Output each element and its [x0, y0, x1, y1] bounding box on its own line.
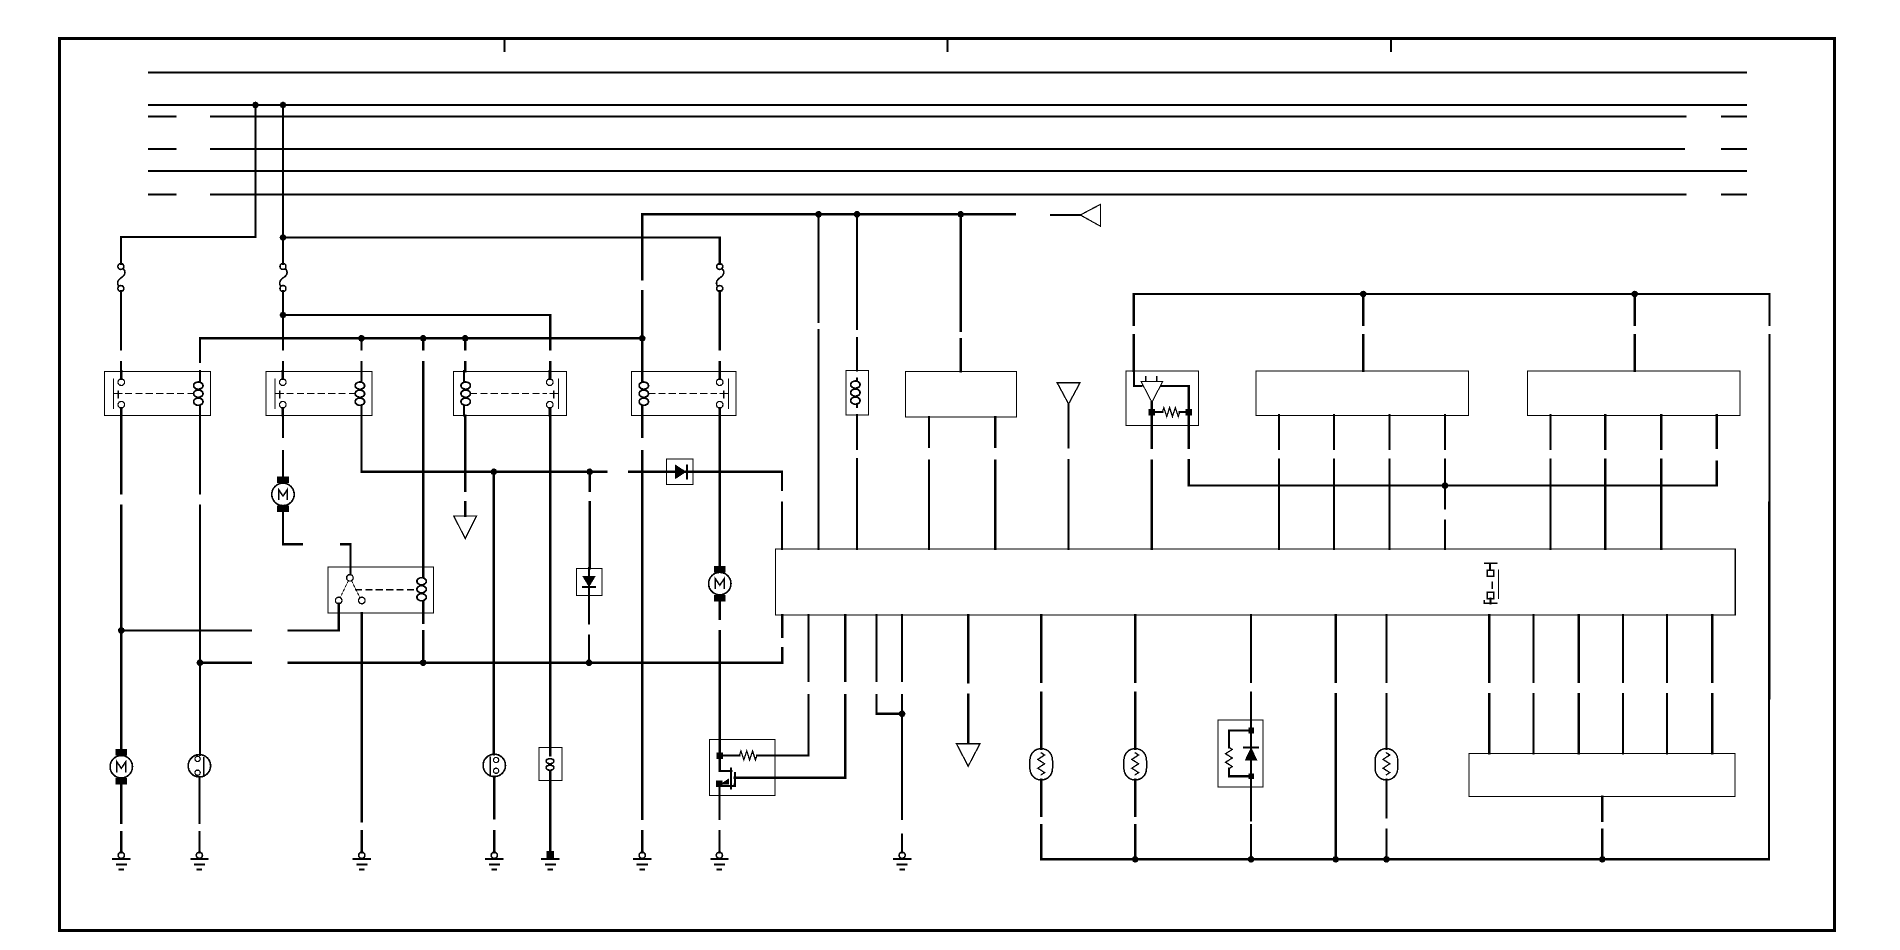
wire net471 to switch S2 — [493, 472, 495, 755]
junction end of net338 at K4 coil wire — [639, 335, 646, 342]
bus line 4 left stub — [149, 148, 176, 150]
ECM pin 782 to net663 — [781, 615, 783, 663]
junction on bus 2 at x=255.5 — [252, 102, 259, 109]
wire net294 to box B — [1634, 294, 1636, 371]
ECM internal switch bottom tick — [1484, 599, 1496, 604]
junction net663 x=423.2 — [420, 659, 427, 666]
connector box B — [1527, 371, 1740, 415]
U1 feedback resistor — [1152, 408, 1189, 417]
wire D2 to net663 — [588, 596, 590, 663]
bus line 6 right stub — [1722, 193, 1746, 195]
ECM pin 1251 to RD box — [1250, 615, 1252, 720]
K5 coil — [417, 567, 426, 613]
junction net471 x=493.8 — [491, 469, 498, 476]
wire net663 to pressure switch S1 — [199, 663, 201, 755]
ECM pin 1712 to box C — [1711, 615, 1713, 753]
wire B3 pin1 to ECM — [928, 417, 930, 549]
box A pin4 drop — [1444, 415, 1446, 485]
lamp LP2 — [1124, 749, 1147, 780]
solenoid L1 box — [846, 370, 868, 415]
wire corner to fuse F1 — [121, 236, 256, 238]
U1 top feedback wire — [1162, 386, 1189, 412]
wire node315 to relay K3 contact — [283, 315, 550, 379]
ground G2 — [191, 852, 207, 869]
ground G5 (filled) — [542, 851, 558, 870]
wire K5 coil to net663 — [422, 613, 424, 663]
bus line 4 right stub — [1722, 148, 1746, 150]
fuse F1 — [118, 264, 125, 292]
K5 dashed link — [356, 589, 414, 591]
ECM pin 1135 to lamp LP2 — [1134, 615, 1136, 749]
ECM internal switch top tick — [1485, 563, 1497, 570]
bus line 3 — [211, 115, 1686, 117]
ECM internal switch dash — [1491, 582, 1493, 588]
K5 throw contact right — [359, 597, 366, 604]
ECM pin 1489 to box C — [1488, 615, 1490, 753]
ECM box — [775, 549, 1735, 615]
pressure switch S2 — [483, 754, 505, 776]
comparator box U1 — [1126, 371, 1198, 425]
relay K1 — [105, 371, 211, 415]
wire 857 to solenoid box — [856, 214, 858, 370]
wire F3 to relay K4 contact — [719, 291, 721, 379]
net line y=630.4 — [121, 629, 338, 631]
ECM pin 1335 to bottom bus — [1335, 615, 1337, 859]
U1 input ticks — [1146, 377, 1157, 382]
wire M3 to Q1 box — [719, 601, 721, 755]
zener D2 box — [576, 568, 602, 595]
border tick 1 — [504, 39, 506, 52]
Q1 channel bar — [734, 773, 736, 785]
net line y=471.8 right part — [629, 471, 666, 473]
border tick 2 — [947, 39, 949, 52]
RD1 top junction — [1248, 728, 1254, 734]
box A pin1 to ECM — [1278, 415, 1280, 549]
diode D1 — [676, 465, 688, 478]
U1 pin1 to ECM — [1151, 412, 1153, 549]
wire S1 to ground — [198, 777, 200, 852]
net line y=338.3 — [200, 337, 642, 339]
heater H1 element — [546, 748, 554, 781]
ECM pin 1579 to box C — [1578, 615, 1580, 753]
wire K1 coil riser — [199, 338, 201, 379]
motor M3 — [709, 566, 731, 601]
resistor-diode box RD1 — [1218, 720, 1263, 787]
RD1 wire through — [1250, 720, 1252, 787]
junction bus x=1135.2 — [1132, 856, 1139, 863]
wire net294 to box A — [1362, 294, 1364, 371]
junction net214 x=857 — [854, 211, 861, 218]
wire S2 to ground — [493, 777, 495, 853]
relay K2 — [266, 371, 372, 415]
connector box C — [1469, 753, 1735, 796]
box B pin2 to ECM — [1604, 415, 1606, 549]
box C pin to bottom bus — [1601, 797, 1603, 860]
bottom bus line y=859.3 — [1041, 858, 1769, 860]
box B pin3 to ECM — [1660, 415, 1662, 549]
junction x=902.1 — [899, 711, 906, 718]
connector box A — [1256, 371, 1469, 415]
box A pin2 to ECM — [1333, 415, 1335, 549]
ECM pin 876 drop — [877, 615, 903, 714]
wire K1 coil drop — [199, 416, 201, 663]
K5 left throw to net630 — [338, 604, 340, 631]
junction node at (283,315) — [280, 312, 287, 319]
wire F3 drop — [719, 238, 721, 265]
motor M2 — [272, 477, 294, 512]
bus line 3 right stub — [1722, 115, 1746, 117]
junction net663 x=589 — [586, 659, 593, 666]
Q1 drain line to ECM pin 845 — [735, 615, 846, 778]
ECM internal switch contact 1 — [1487, 570, 1493, 576]
junction net630 x=121.3 — [118, 627, 125, 634]
wire M2 to K5 common — [283, 511, 351, 575]
bus line 4 — [211, 148, 1684, 150]
motor M1 — [110, 749, 132, 784]
wire K4 coil feed from net214 — [641, 214, 643, 371]
Q1 gate bar — [730, 768, 732, 788]
U1 output wire — [1151, 402, 1153, 412]
wire K3 coil drop — [464, 416, 466, 517]
border tick 3 — [1390, 39, 1392, 52]
ECM internal switch contact 2 — [1487, 592, 1493, 598]
ECM pin 1534 to box C — [1532, 615, 1534, 753]
ECM pin 1041 to lamp LP1 — [1040, 615, 1042, 749]
wire 960.7 to sensor box — [960, 214, 962, 371]
junction net294 box B — [1631, 291, 1638, 298]
ground G3 — [354, 852, 370, 869]
bus line 3 left stub — [149, 115, 176, 117]
wire B3 pin2 to ECM — [994, 417, 996, 549]
lamp LP1 — [1030, 749, 1053, 780]
wire LP3 to bottom bus — [1385, 780, 1387, 860]
wire 818.6 to ECM top — [817, 214, 819, 549]
net line y=662.7 — [200, 662, 782, 664]
relay K3 — [454, 371, 567, 415]
K5 right throw to ground — [361, 613, 363, 852]
heater H1 box — [539, 748, 562, 781]
junction net471 x=589.7 — [586, 469, 593, 476]
U1 pin2 drop — [1188, 412, 1190, 486]
ground G7 — [711, 852, 727, 869]
ECM pin 1386 to lamp LP3 — [1385, 615, 1387, 749]
bus line 6 — [211, 193, 1686, 195]
off-page triangle down x=968.2 — [956, 744, 980, 767]
ECM pin 1667 to box C — [1666, 615, 1668, 753]
ground G6 — [634, 852, 650, 869]
ECM internal switch bar — [1498, 570, 1500, 599]
lamp LP3 — [1375, 749, 1398, 780]
box A pin3 to ECM — [1388, 415, 1390, 549]
U1 triangle — [1141, 381, 1163, 402]
pressure switch S1 — [188, 755, 210, 777]
Q1 source junction — [716, 781, 722, 787]
wire box A pin4 to ECM — [1444, 486, 1446, 549]
diode D1 box — [666, 459, 693, 485]
Q1 gate path — [720, 756, 732, 771]
wire bus2 down x=283 — [282, 105, 284, 264]
junction on bus 2 at x=283 — [280, 102, 287, 109]
wire K2 coil drop — [360, 416, 362, 472]
wire net294 right drop to bottom bus — [1768, 294, 1771, 859]
wire M1 to ground — [120, 784, 122, 852]
junction K3 coil on net338 — [462, 335, 469, 342]
MOSFET Q1 box — [709, 739, 775, 795]
wire net471 to zener D2 — [589, 472, 591, 569]
net line y=294 — [1134, 293, 1770, 295]
junction bus x=1602.3 — [1599, 856, 1606, 863]
net line y=485.6 — [1189, 485, 1717, 487]
net471 to ECM pin — [693, 472, 782, 549]
net line y=214 — [642, 213, 1015, 215]
bus line 1 — [149, 71, 1746, 73]
off-page triangle down x=465.2 — [454, 516, 477, 539]
RD1 bottom junction — [1248, 774, 1254, 780]
Q1 gate resistor — [720, 751, 757, 760]
wire K1 contact to motor M1 — [120, 416, 122, 750]
junction net214 x=960.7 — [957, 211, 964, 218]
ECM pin 902 to ground — [901, 615, 903, 852]
solenoid L1 coil — [851, 378, 860, 406]
box B pin1 to ECM — [1549, 415, 1551, 549]
junction net663 x=199.9 — [197, 659, 204, 666]
wire node237 to fuse F3 — [283, 236, 720, 238]
wire Q1 resistor to ECM pin 808 — [757, 615, 809, 756]
bus line 6 left stub — [149, 193, 176, 195]
K5 common contact — [347, 575, 354, 582]
ground G8 — [894, 852, 910, 869]
bus line 5 — [149, 170, 1746, 172]
wire 1068.6 to ECM top — [1067, 404, 1069, 549]
net line y=471.8 left part — [361, 471, 606, 473]
wire 283 down to relay K2 — [282, 315, 284, 379]
junction box A pin4 on net485 — [1442, 482, 1449, 489]
bus line 2 — [149, 104, 1746, 106]
wire K2 coil riser — [360, 338, 362, 371]
U1 input wire — [1134, 371, 1142, 386]
Q1 drain junction — [717, 753, 723, 759]
fuse F3 — [716, 264, 723, 292]
relay K4 — [632, 371, 737, 415]
diode D1 wire through — [666, 471, 693, 473]
wire RD1 to bottom bus — [1250, 787, 1252, 859]
RD1 diode up — [1244, 748, 1258, 761]
wire K4 contact to motor M3 — [719, 416, 721, 567]
wire LP2 to bottom bus — [1134, 780, 1136, 860]
Q1 source link — [719, 779, 734, 786]
ECM pin 968 to off-page — [967, 615, 969, 744]
wire K4 coil to ground — [641, 416, 643, 853]
ground G1 — [113, 852, 129, 869]
relay K5 box — [328, 567, 433, 613]
wire K5 coil drop — [422, 338, 424, 567]
motor M2 feed from K2 — [282, 416, 284, 478]
K5 armature dashes — [340, 581, 360, 598]
box B pin4 drop — [1716, 415, 1718, 485]
junction K5 coil on net338 — [420, 335, 427, 342]
wire bus2 down x=255.5 — [254, 105, 256, 237]
wire LP1 to bottom bus — [1040, 780, 1042, 860]
wire K3 coil riser — [464, 338, 466, 371]
off-page arrow left-pointing — [1080, 204, 1100, 226]
junction net294 box A — [1360, 291, 1367, 298]
junction net214 x=818.6 — [815, 211, 822, 218]
zener D2 — [583, 568, 595, 595]
junction bus x=1251.1 — [1248, 856, 1255, 863]
wire K3 contact to heater — [549, 408, 551, 748]
wire F1 to relay K1 — [120, 291, 122, 379]
ground G4 — [486, 852, 502, 869]
junction K2 coil on net338 — [358, 335, 365, 342]
wire solenoid L1 to ECM top — [856, 415, 858, 549]
junction node at (283,237) — [280, 234, 287, 241]
wire F2 to node315 — [282, 291, 284, 315]
wire F1 drop — [120, 237, 122, 264]
sensor box B3 — [905, 372, 1016, 418]
ECM pin 1623 to box C — [1622, 615, 1624, 753]
RD1 resistor branch — [1226, 731, 1252, 777]
wire Q1 to ground — [718, 784, 720, 853]
off-page triangle down x=1068.6 — [1057, 383, 1080, 404]
fuse F2 — [280, 264, 287, 292]
U1 junction right — [1186, 409, 1192, 415]
junction bus x=1335.7 — [1332, 856, 1339, 863]
wire H1 to ground — [549, 781, 551, 852]
U1 junction left — [1149, 409, 1155, 415]
wire net294 down to comparator box — [1133, 294, 1135, 371]
junction bus x=1386.4 — [1383, 856, 1390, 863]
net214 stub to arrow — [1051, 214, 1080, 216]
K5 throw contact left — [335, 597, 342, 604]
